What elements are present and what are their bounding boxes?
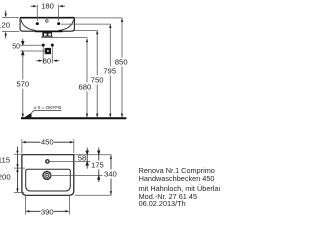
drain wall box circle — [46, 49, 50, 53]
drain wall box (square) — [45, 48, 50, 53]
dim 80: left arrow — [36, 60, 39, 62]
washbasin front view: outer outline — [20, 18, 74, 31]
plan view outer outline — [22, 155, 74, 196]
water supply dot left — [42, 44, 45, 47]
dim line 570 — [22, 51, 24, 117]
extension line rim top to 850 — [75, 17, 123, 19]
extension line fixing dots to 795 — [61, 23, 111, 25]
dim 390: line and arrows — [28, 210, 66, 212]
overflow drain (plan view) — [43, 172, 51, 180]
dim line 750 — [96, 31, 98, 118]
floor datum triangle — [24, 113, 31, 118]
washbasin front view: inner bowl curve left — [21, 20, 36, 31]
extension line basin bottom to 750 — [75, 29, 98, 31]
dim 175: outside arrows — [98, 148, 100, 182]
dim 200 inside arrows — [16, 164, 18, 168]
dim 120: lower arrow — [5, 35, 7, 39]
washbasin front view: rim top line — [20, 17, 75, 19]
dim 115: extension lines — [14, 153, 21, 155]
extension line drain plate to 680 — [53, 37, 88, 39]
right ext line tap level — [50, 160, 91, 162]
water supply dot right — [51, 44, 54, 47]
dim 120: upper arrow — [5, 11, 7, 15]
drain plate line — [41, 36, 53, 37]
dim 180: right arrow — [61, 5, 65, 7]
right ext line drain level — [52, 175, 103, 177]
dim 50: upper arrow — [22, 39, 24, 45]
tap hole (front view) — [45, 20, 48, 23]
dim 180: extension line right — [58, 5, 60, 21]
dim 120: extension top — [2, 17, 19, 19]
dim 120: extension bottom — [2, 31, 20, 33]
dim 50: lower arrow — [22, 51, 24, 57]
dimension labels — [41, 1, 54, 10]
right ext line rect bottom — [75, 194, 112, 196]
dim 180: left arrow — [31, 5, 34, 7]
dim 390: extension lines — [24, 196, 26, 215]
dim line 680 — [86, 39, 88, 118]
dim 450: extension lines — [21, 139, 23, 153]
right ext line rect top — [75, 154, 112, 156]
dim 180: extension line left — [36, 5, 38, 21]
washbasin front view: bottom shadow line — [35, 30, 63, 32]
product text block — [139, 166, 215, 175]
drain fitting block below basin — [42, 32, 52, 36]
fixing hole right (front view) — [57, 22, 60, 25]
floor line — [21, 117, 126, 119]
tap hole (plan view) — [46, 160, 49, 163]
dim 58: outside arrows — [86, 148, 88, 169]
plan view inner basin outline — [26, 169, 71, 191]
dim 80: extension lines down from supply dots — [42, 47, 44, 64]
dim 115 line, outside arrow above, shared arrow at 168 — [17, 147, 19, 193]
dim 80: right arrow — [56, 60, 59, 62]
dim line 795 — [109, 24, 111, 117]
dim 200: extension line bottom — [14, 191, 24, 193]
dim 50: extension lines — [20, 44, 41, 46]
dim 340: line with inside arrows — [110, 155, 112, 195]
datum leader line — [32, 110, 62, 112]
dim 450: line and arrows — [25, 141, 71, 143]
dim line 850 — [121, 18, 123, 117]
washbasin front view: inner bowl curve right — [59, 20, 74, 31]
fixing hole left (front view) — [36, 22, 39, 25]
